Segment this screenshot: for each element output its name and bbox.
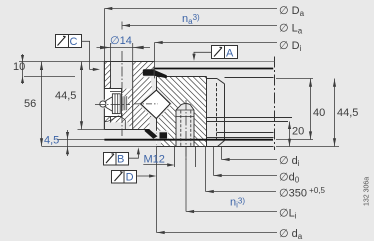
leader d_0	[214, 147, 278, 176]
dimension 56	[41, 62, 43, 147]
outer ring left edge redraw	[103, 62, 105, 100]
svg-text:∅ Di: ∅ Di	[279, 40, 302, 53]
seal bottom (black)	[145, 129, 158, 139]
rotation axis centerline	[274, 57, 276, 151]
svg-text:A: A	[226, 48, 234, 60]
inner ring right portion (view)	[207, 77, 293, 147]
inner ring outline	[157, 77, 274, 147]
dimension 20	[276, 122, 339, 147]
svg-text:56: 56	[24, 98, 36, 110]
svg-text:10: 10	[13, 61, 25, 73]
leader L_i / n_i	[186, 147, 277, 212]
M12 thread hole	[175, 104, 196, 168]
svg-text:40: 40	[313, 107, 325, 119]
bolt hole centerline	[121, 51, 123, 136]
outer ring section (hatched)	[104, 62, 155, 130]
svg-text:44,5: 44,5	[55, 90, 76, 102]
leader d_a	[157, 147, 278, 233]
inner ring section (hatched)	[157, 77, 207, 147]
grease nipple pocket	[104, 89, 121, 117]
bolt hole d14 edges	[111, 62, 133, 130]
leader D_a	[105, 9, 278, 62]
dimension 10	[19, 54, 275, 84]
M12 hole centerline	[185, 100, 187, 161]
svg-text:20: 20	[292, 126, 304, 138]
bottom mounting bar (bold)	[104, 139, 273, 141]
leader L_a / n_a	[122, 22, 277, 30]
svg-text:∅Li: ∅Li	[279, 208, 297, 221]
leader d_i	[222, 147, 278, 160]
dimension 44,5 left	[78, 62, 105, 130]
dimension 4,5	[42, 130, 157, 156]
flag B	[104, 147, 141, 165]
svg-text:B: B	[117, 154, 124, 166]
nipple centerline	[95, 104, 130, 106]
dimension 44,5 right	[334, 79, 336, 147]
top mounting bar (bold)	[154, 68, 274, 70]
grease nipple	[100, 94, 126, 130]
svg-text:44,5: 44,5	[337, 107, 358, 119]
svg-text:D: D	[126, 172, 134, 184]
outer ring outline	[104, 62, 154, 130]
seal top (black)	[143, 69, 154, 76]
dimension d14	[97, 43, 151, 62]
svg-text:4,5: 4,5	[44, 135, 59, 147]
dimension 40	[276, 79, 313, 140]
flag A	[192, 46, 237, 61]
leader D_i	[155, 43, 278, 79]
svg-text:∅14: ∅14	[110, 35, 132, 47]
svg-text:∅ di: ∅ di	[279, 155, 300, 168]
svg-text:132 306a: 132 306a	[364, 177, 371, 206]
flag D	[112, 171, 157, 184]
svg-text:M12: M12	[144, 154, 165, 166]
flag C	[56, 35, 101, 72]
svg-text:C: C	[70, 36, 78, 48]
crossed roller (diamond)	[135, 90, 171, 118]
leader 350	[206, 147, 277, 192]
